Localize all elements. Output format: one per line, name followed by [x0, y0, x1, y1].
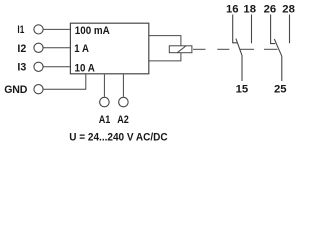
svg-text:25: 25	[274, 83, 287, 95]
svg-text:I1: I1	[17, 24, 24, 36]
svg-text:A1: A1	[99, 114, 111, 126]
svg-text:1 A: 1 A	[74, 43, 89, 55]
svg-text:10 A: 10 A	[75, 62, 96, 74]
svg-text:I2: I2	[17, 43, 26, 55]
svg-text:28: 28	[282, 3, 295, 15]
svg-text:16: 16	[226, 3, 239, 15]
svg-text:15: 15	[236, 83, 249, 95]
svg-text:U = 24...240 V AC/DC: U = 24...240 V AC/DC	[69, 131, 167, 143]
svg-text:18: 18	[243, 3, 256, 15]
svg-text:26: 26	[264, 3, 277, 15]
svg-text:A2: A2	[117, 114, 129, 126]
svg-text:GND: GND	[4, 84, 28, 96]
svg-text:I3: I3	[17, 62, 26, 74]
svg-text:100 mA: 100 mA	[75, 25, 110, 37]
